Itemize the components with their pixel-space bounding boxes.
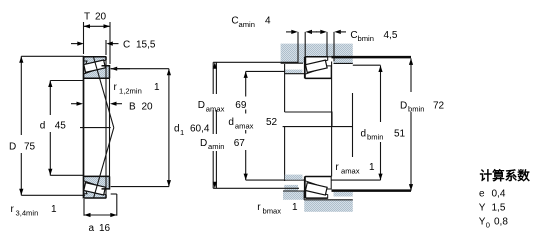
spacer bore thick line bottom — [332, 189, 412, 192]
svg-text:D: D — [9, 142, 16, 153]
housing shoulder top edge bottom — [283, 191, 304, 200]
svg-text:Y: Y — [479, 217, 486, 228]
shaft break notch — [285, 112, 332, 127]
svg-text:D: D — [200, 138, 207, 149]
svg-text:d: d — [40, 121, 46, 132]
svg-text:bmin: bmin — [408, 105, 424, 114]
svg-text:45: 45 — [55, 121, 67, 132]
dimension Damin 67 — [212, 62, 214, 94]
svg-text:B: B — [129, 102, 136, 113]
svg-text:4,5: 4,5 — [384, 30, 398, 41]
bottom section outline — [84, 176, 110, 198]
right bearing top outline — [305, 57, 331, 79]
svg-text:16: 16 — [99, 223, 111, 234]
shaft shoulder strip bottom — [285, 175, 303, 180]
shaft left face lower — [284, 127, 286, 181]
label r 1,2min 1 with leader arrow — [111, 68, 130, 70]
cone (inner ring) bottom section hatched — [84, 176, 110, 189]
shaft bottom surface and dbmin extension — [246, 179, 381, 181]
housing bore edge line bottom — [304, 199, 353, 201]
svg-text:0: 0 — [486, 221, 490, 230]
svg-text:52: 52 — [266, 117, 278, 128]
dimension a 16 — [83, 199, 85, 216]
svg-text:0,4: 0,4 — [492, 189, 506, 200]
svg-text:bmin: bmin — [367, 133, 383, 142]
dimension D 75 — [21, 55, 84, 57]
svg-text:d: d — [361, 128, 367, 139]
pressure line lower — [94, 128, 114, 199]
right bearing cone bottom — [305, 177, 331, 190]
housing hatched band bottom — [304, 200, 353, 212]
Camin extension lines and arrows — [297, 32, 299, 63]
svg-text:e: e — [479, 189, 485, 200]
svg-text:amin: amin — [208, 142, 224, 151]
centerline axis — [80, 127, 111, 129]
shaft shoulder surface edge top — [285, 73, 305, 75]
svg-text:72: 72 — [433, 101, 445, 112]
svg-text:51: 51 — [394, 128, 406, 139]
svg-text:20: 20 — [95, 12, 107, 23]
shaft right edge lower — [331, 62, 333, 177]
svg-text:1: 1 — [180, 128, 184, 137]
housing bore edge line top — [305, 56, 353, 58]
svg-text:1: 1 — [369, 162, 375, 173]
right bearing cup bottom — [306, 188, 328, 198]
svg-text:d: d — [174, 124, 180, 135]
top section outline — [84, 57, 110, 79]
dimension B 20 — [71, 103, 78, 105]
housing hatched band top with shoulder — [281, 44, 353, 64]
svg-text:69: 69 — [235, 100, 247, 111]
svg-text:bmin: bmin — [358, 34, 374, 43]
right bearing cone top — [305, 66, 331, 79]
shoulder annulus blob bottom — [284, 185, 298, 191]
cup (outer ring) bottom section hatched — [84, 188, 106, 198]
housing shoulder bottom edge — [281, 57, 306, 63]
svg-text:1: 1 — [292, 202, 298, 213]
small cup front wedge bottom — [84, 185, 88, 194]
cone (inner ring) top section hatched — [84, 66, 110, 79]
dimension Dbmin 72 — [410, 58, 412, 92]
cup right face line — [105, 57, 107, 198]
svg-text:T: T — [84, 12, 90, 23]
right bearing left face bottom — [304, 177, 306, 199]
svg-text:C: C — [123, 40, 130, 51]
spacer bore thick line top — [332, 56, 412, 59]
svg-text:amax: amax — [235, 121, 254, 130]
right bearing roller top — [305, 60, 327, 72]
small cup front wedge top — [84, 61, 88, 70]
svg-text:75: 75 — [24, 142, 36, 153]
shaft break right edge — [352, 93, 354, 157]
shaft shoulder strip top — [285, 70, 303, 74]
tapered roller top — [84, 60, 106, 72]
svg-text:1: 1 — [154, 82, 160, 93]
svg-text:60,4: 60,4 — [190, 124, 210, 135]
svg-text:d: d — [228, 117, 234, 128]
svg-text:D: D — [198, 100, 205, 111]
svg-text:1,2min: 1,2min — [119, 87, 142, 96]
spacer ring top (hatched) — [334, 57, 353, 64]
svg-text:计算系数: 计算系数 — [480, 168, 531, 183]
svg-text:1: 1 — [51, 204, 57, 215]
bearing left face line — [83, 56, 85, 198]
spacer ring bottom (hatched) — [334, 192, 353, 197]
tapered roller bottom — [84, 183, 106, 195]
spacer bottom edge top — [334, 62, 353, 64]
svg-text:20: 20 — [142, 102, 154, 113]
shaft left face upper — [284, 64, 286, 112]
dimension d1 60,4 — [111, 68, 169, 70]
right bearing cup top — [306, 57, 328, 67]
svg-text:a: a — [89, 223, 95, 234]
cone back face line — [109, 66, 111, 189]
svg-text:Y: Y — [479, 203, 486, 214]
Cbmin extension lines and arrows — [326, 32, 328, 57]
svg-text:amax: amax — [341, 166, 360, 175]
dimension Damax 69 — [213, 61, 298, 63]
svg-text:15,5: 15,5 — [136, 40, 156, 51]
right bearing roller bottom — [305, 183, 327, 195]
cup (outer ring) top section hatched — [84, 57, 106, 67]
svg-text:D: D — [400, 101, 407, 112]
svg-text:67: 67 — [234, 138, 246, 149]
pressure line upper — [94, 57, 114, 128]
svg-text:1,5: 1,5 — [492, 203, 506, 214]
svg-text:bmax: bmax — [263, 206, 282, 215]
dimension T 20 — [84, 25, 111, 27]
dimension d 45 — [50, 80, 83, 82]
right figure centerline — [283, 126, 353, 128]
svg-text:3,4min: 3,4min — [16, 209, 39, 218]
right bearing left face top — [304, 57, 306, 79]
dimension C 15,5 — [71, 43, 79, 45]
svg-text:amin: amin — [239, 20, 255, 29]
right bearing bottom outline — [305, 177, 331, 199]
svg-text:amax: amax — [206, 104, 225, 113]
dimension damax 52 — [246, 70, 285, 72]
dimension dbmin 51 — [353, 64, 381, 66]
svg-text:4: 4 — [265, 16, 271, 27]
housing shoulder hatch bottom — [283, 191, 304, 200]
svg-text:0,8: 0,8 — [494, 217, 508, 228]
